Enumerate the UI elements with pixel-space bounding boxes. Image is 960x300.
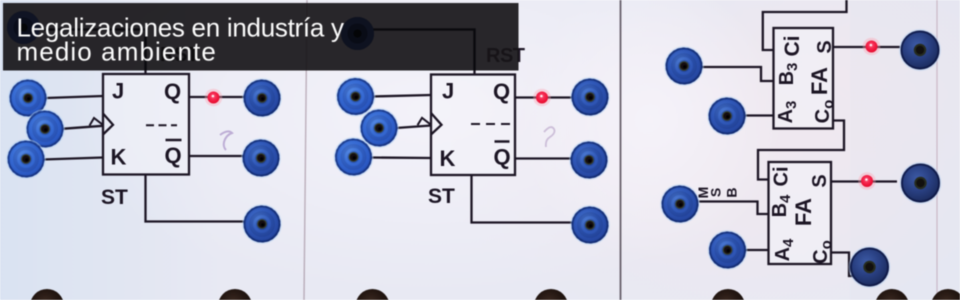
svg-text:Q: Q xyxy=(493,79,510,104)
svg-text:Ci: Ci xyxy=(781,36,804,57)
svg-text:medio ambiente: medio ambiente xyxy=(17,37,217,67)
svg-text:B: B xyxy=(724,187,740,197)
svg-text:Ci: Ci xyxy=(771,167,793,187)
svg-text:FA: FA xyxy=(791,198,816,226)
svg-text:J: J xyxy=(112,79,124,104)
svg-text:ST: ST xyxy=(428,185,455,208)
svg-text:Q: Q xyxy=(164,79,181,104)
svg-text:K: K xyxy=(440,146,456,171)
svg-text:J: J xyxy=(442,79,454,104)
svg-text:K: K xyxy=(111,145,127,170)
svg-text:Q: Q xyxy=(494,145,511,170)
svg-text:S: S xyxy=(814,40,836,53)
svg-text:Q: Q xyxy=(165,143,182,168)
svg-text:S: S xyxy=(809,174,831,187)
svg-text:ST: ST xyxy=(101,186,128,209)
svg-text:S: S xyxy=(708,188,724,197)
svg-text:FA: FA xyxy=(807,67,832,95)
